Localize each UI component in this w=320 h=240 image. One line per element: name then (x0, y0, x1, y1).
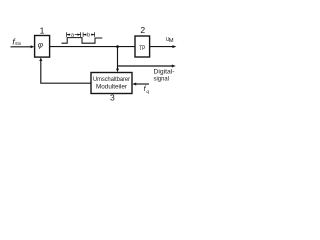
pulse waveform annotation (62, 38, 103, 44)
f_q arrowhead into divider (132, 83, 136, 86)
svg-text:Modulteiler: Modulteiler (96, 84, 127, 91)
arrowhead into divider top (116, 69, 119, 73)
switchable modulus divider block 3 (91, 73, 132, 94)
label f_Ein (12, 36, 21, 46)
dimension marker a (67, 32, 81, 37)
junction node (116, 45, 119, 48)
label f_q (144, 86, 150, 95)
low-pass block 2 TP (135, 36, 150, 57)
svg-text:q: q (146, 90, 149, 95)
svg-text:signal: signal (154, 77, 170, 83)
output wire (150, 46, 173, 48)
svg-text:1: 1 (40, 25, 45, 35)
svg-text:2: 2 (140, 25, 145, 35)
wire junction down to divider (117, 47, 119, 70)
arrowhead into block1 bottom (39, 57, 42, 61)
digital signal arrowhead (172, 65, 176, 68)
feedback wire divider to block1 (41, 59, 91, 83)
digital signal line (118, 65, 173, 67)
svg-text:3: 3 (110, 93, 115, 103)
label Digital-signal (154, 70, 175, 83)
f_q wire (135, 83, 149, 85)
wire block1 to TP (50, 46, 135, 48)
label U_M (166, 37, 174, 44)
svg-text:Digital-: Digital- (154, 70, 175, 76)
dimension marker b (83, 32, 95, 37)
svg-text:TP: TP (139, 45, 146, 52)
svg-text:Ein: Ein (15, 41, 21, 46)
phase comparator block 1 (35, 36, 50, 58)
input wire (11, 46, 32, 48)
output arrowhead (172, 45, 176, 48)
input arrowhead into block 1 (31, 45, 35, 48)
svg-text:M: M (169, 38, 174, 44)
svg-text:b: b (87, 32, 90, 38)
svg-text:φ: φ (38, 40, 43, 49)
svg-text:Umschaltbarer: Umschaltbarer (93, 76, 130, 83)
